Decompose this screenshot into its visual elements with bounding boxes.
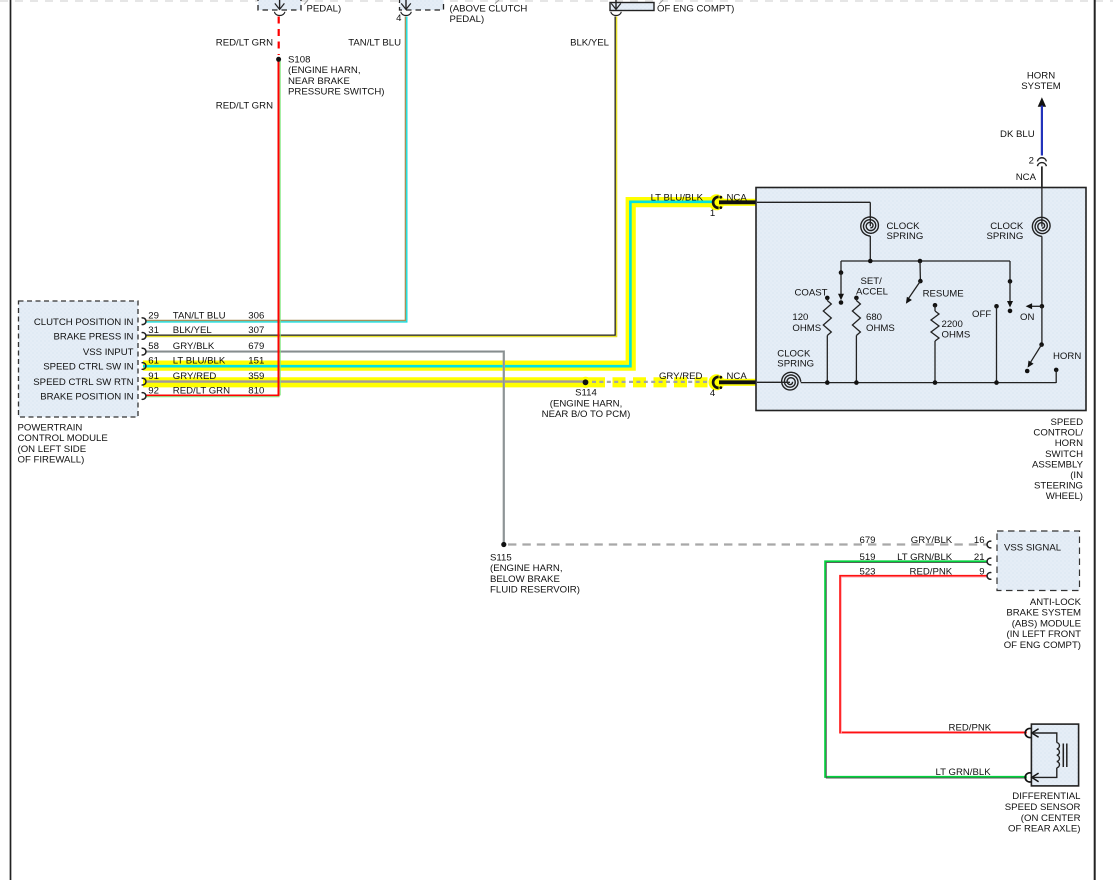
svg-text:OF REAR AXLE): OF REAR AXLE) — [1008, 824, 1081, 835]
svg-text:RED/PNK: RED/PNK — [949, 722, 992, 733]
svg-text:NEAR BRAKE: NEAR BRAKE — [288, 76, 350, 87]
svg-text:OHMS: OHMS — [942, 330, 971, 341]
svg-text:SPEED CTRL SW RTN: SPEED CTRL SW RTN — [33, 377, 133, 388]
svg-text:LT BLU/BLK: LT BLU/BLK — [651, 192, 704, 203]
svg-text:ANTI-LOCK: ANTI-LOCK — [1030, 597, 1082, 608]
svg-text:LT GRN/BLK: LT GRN/BLK — [936, 767, 992, 778]
svg-text:523: 523 — [859, 567, 875, 578]
svg-text:151: 151 — [248, 355, 264, 366]
svg-text:TAN/LT BLU: TAN/LT BLU — [173, 311, 226, 322]
svg-text:810: 810 — [248, 385, 264, 396]
svg-text:PEDAL): PEDAL) — [450, 14, 485, 25]
svg-text:CONTROL/: CONTROL/ — [1033, 428, 1083, 439]
svg-text:DIFFERENTIAL: DIFFERENTIAL — [1012, 791, 1081, 802]
svg-text:TAN/LT BLU: TAN/LT BLU — [348, 37, 401, 48]
svg-text:OHMS: OHMS — [792, 323, 821, 334]
svg-text:(IN LEFT FRONT: (IN LEFT FRONT — [1007, 629, 1082, 640]
svg-text:(ON CENTER: (ON CENTER — [1021, 813, 1081, 824]
svg-text:S108: S108 — [288, 55, 310, 66]
svg-text:PEDAL): PEDAL) — [307, 3, 342, 14]
svg-text:WHEEL): WHEEL) — [1046, 491, 1083, 502]
svg-text:SPEED SENSOR: SPEED SENSOR — [1005, 802, 1081, 813]
svg-text:(IN: (IN — [1070, 470, 1083, 481]
svg-text:16: 16 — [974, 535, 985, 546]
svg-text:GRY/BLK: GRY/BLK — [911, 535, 953, 546]
svg-text:GRY/RED: GRY/RED — [659, 371, 703, 382]
svg-text:ACCEL: ACCEL — [856, 287, 889, 298]
svg-text:(ABS) MODULE: (ABS) MODULE — [1012, 618, 1081, 629]
svg-text:NCA: NCA — [727, 371, 748, 382]
svg-text:HORN: HORN — [1055, 438, 1083, 449]
svg-text:519: 519 — [859, 552, 875, 563]
svg-text:LT GRN/BLK: LT GRN/BLK — [897, 552, 953, 563]
svg-text:ON: ON — [1020, 312, 1034, 323]
svg-text:ASSEMBLY: ASSEMBLY — [1032, 459, 1084, 470]
svg-text:2200: 2200 — [942, 319, 963, 330]
svg-text:NEAR B/O TO PCM): NEAR B/O TO PCM) — [542, 409, 631, 420]
svg-text:NCA: NCA — [1016, 172, 1037, 183]
svg-text:CLUTCH POSITION IN: CLUTCH POSITION IN — [34, 317, 134, 328]
svg-text:(ABOVE CLUTCH: (ABOVE CLUTCH — [450, 3, 528, 14]
svg-text:S115: S115 — [490, 553, 512, 564]
svg-text:OHMS: OHMS — [866, 323, 895, 334]
svg-text:(ENGINE HARN,: (ENGINE HARN, — [490, 563, 563, 574]
svg-text:BRAKE PRESS IN: BRAKE PRESS IN — [54, 332, 134, 343]
svg-text:OF ENG COMPT): OF ENG COMPT) — [1004, 640, 1081, 651]
svg-text:BLK/YEL: BLK/YEL — [173, 325, 213, 336]
svg-text:NCA: NCA — [727, 192, 748, 203]
svg-text:PRESSURE SWITCH): PRESSURE SWITCH) — [288, 87, 384, 98]
svg-text:680: 680 — [866, 312, 882, 323]
svg-text:91: 91 — [148, 371, 159, 382]
svg-text:HORN: HORN — [1027, 71, 1055, 82]
svg-text:FLUID RESERVOIR): FLUID RESERVOIR) — [490, 585, 580, 596]
svg-text:OF ENG COMPT): OF ENG COMPT) — [657, 3, 734, 14]
svg-text:COAST: COAST — [794, 288, 827, 299]
svg-text:CONTROL MODULE: CONTROL MODULE — [18, 433, 108, 444]
svg-text:SWITCH: SWITCH — [1045, 449, 1083, 460]
svg-text:(ENGINE HARN,: (ENGINE HARN, — [550, 398, 623, 409]
svg-text:BRAKE POSITION IN: BRAKE POSITION IN — [40, 392, 133, 403]
svg-text:SPRING: SPRING — [777, 359, 814, 370]
svg-text:306: 306 — [248, 311, 264, 322]
svg-text:2: 2 — [1029, 155, 1034, 166]
svg-text:SYSTEM: SYSTEM — [1021, 81, 1060, 92]
svg-text:STEERING: STEERING — [1034, 481, 1083, 492]
svg-text:GRY/BLK: GRY/BLK — [173, 341, 215, 352]
svg-text:DK BLU: DK BLU — [1000, 129, 1035, 140]
svg-text:RESUME: RESUME — [923, 289, 964, 300]
svg-text:OFF: OFF — [972, 309, 991, 320]
svg-text:SPRING: SPRING — [987, 231, 1024, 242]
svg-text:92: 92 — [148, 385, 159, 396]
svg-text:679: 679 — [248, 341, 264, 352]
svg-text:VSS SIGNAL: VSS SIGNAL — [1004, 542, 1062, 553]
svg-text:POWERTRAIN: POWERTRAIN — [18, 423, 83, 434]
svg-text:RED/PNK: RED/PNK — [910, 567, 953, 578]
svg-text:SPEED: SPEED — [1050, 417, 1083, 428]
svg-text:1: 1 — [710, 208, 715, 219]
svg-text:BRAKE SYSTEM: BRAKE SYSTEM — [1006, 608, 1081, 619]
svg-text:RED/LT GRN: RED/LT GRN — [173, 385, 230, 396]
svg-text:307: 307 — [248, 325, 264, 336]
svg-text:61: 61 — [148, 355, 159, 366]
svg-text:SET/: SET/ — [861, 276, 883, 287]
svg-text:GRY/RED: GRY/RED — [173, 371, 217, 382]
svg-text:HORN: HORN — [1053, 351, 1081, 362]
svg-text:LT BLU/BLK: LT BLU/BLK — [173, 355, 226, 366]
svg-text:BLK/YEL: BLK/YEL — [570, 37, 610, 48]
svg-text:4: 4 — [710, 388, 716, 399]
svg-text:21: 21 — [974, 552, 985, 563]
svg-text:31: 31 — [148, 325, 159, 336]
svg-text:120: 120 — [792, 312, 808, 323]
svg-text:(ON LEFT SIDE: (ON LEFT SIDE — [18, 444, 87, 455]
svg-text:RED/LT GRN: RED/LT GRN — [216, 37, 273, 48]
svg-text:58: 58 — [148, 341, 159, 352]
svg-text:S114: S114 — [575, 388, 597, 399]
svg-text:29: 29 — [148, 311, 159, 322]
svg-text:9: 9 — [979, 567, 984, 578]
svg-text:VSS INPUT: VSS INPUT — [83, 347, 134, 358]
svg-text:RED/LT GRN: RED/LT GRN — [216, 101, 273, 112]
svg-text:OF FIREWALL): OF FIREWALL) — [18, 455, 85, 466]
svg-text:4: 4 — [396, 13, 402, 24]
svg-text:SPRING: SPRING — [887, 231, 924, 242]
svg-text:BELOW BRAKE: BELOW BRAKE — [490, 574, 560, 585]
svg-text:679: 679 — [859, 535, 875, 546]
svg-text:359: 359 — [248, 371, 264, 382]
svg-text:SPEED CTRL SW IN: SPEED CTRL SW IN — [43, 362, 133, 373]
svg-text:(ENGINE HARN,: (ENGINE HARN, — [288, 65, 361, 76]
